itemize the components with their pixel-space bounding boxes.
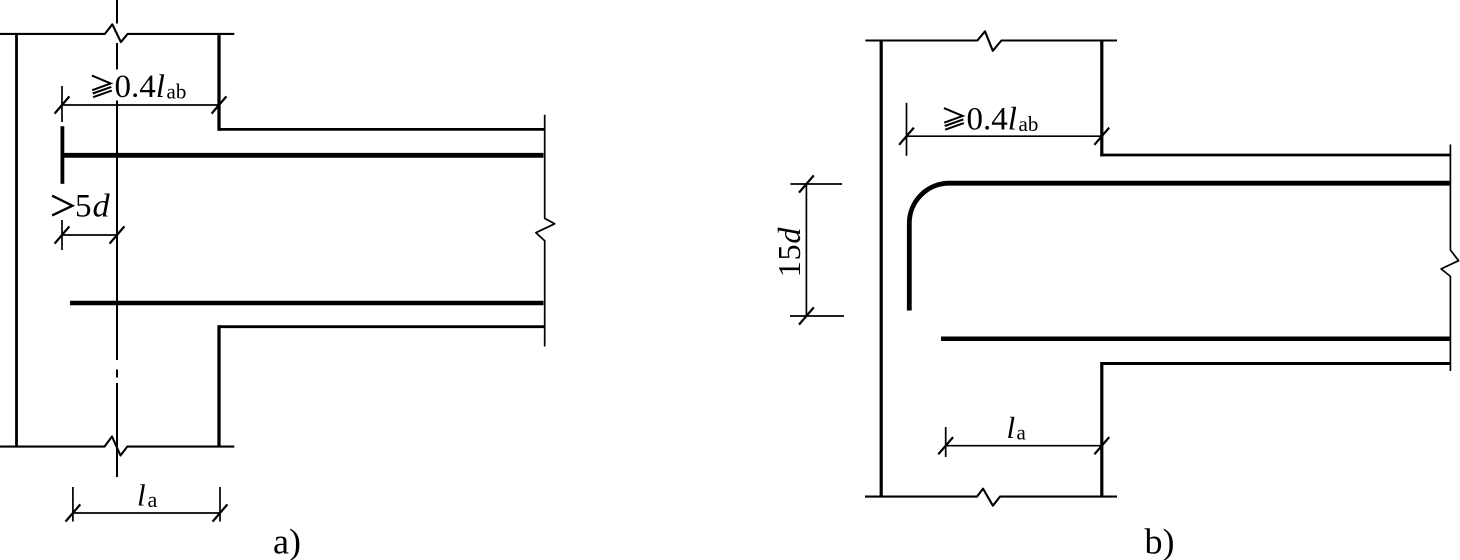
column centerline (axis) bbox=[116, 0, 118, 477]
bottom cut line with break symbol bbox=[0, 437, 234, 456]
column inner edge lower segment bbox=[217, 325, 220, 446]
column inner edge upper segment bbox=[217, 33, 220, 131]
dim >5d : dimension line bbox=[62, 234, 117, 236]
svg-text:a): a) bbox=[273, 522, 301, 560]
svg-text:15d: 15d bbox=[771, 227, 807, 278]
svg-text:l: l bbox=[1007, 410, 1016, 445]
bottom cut line with break symbol bbox=[865, 489, 1117, 506]
dim la : extension line bbox=[945, 427, 947, 457]
beam bottom edge bbox=[218, 325, 545, 328]
beam top edge bbox=[218, 128, 545, 131]
dim la : dimension line bbox=[946, 445, 1102, 447]
column right edge lower segment bbox=[1100, 362, 1103, 497]
svg-text:b): b) bbox=[1145, 522, 1175, 560]
dim >5d : extension line bbox=[61, 220, 63, 250]
dim &ge;0.4lab : tick marks bbox=[55, 96, 227, 113]
bottom rebar bbox=[70, 301, 544, 306]
dim &ge;0.4lab : extension line bbox=[61, 86, 63, 122]
dim la : tick marks bbox=[938, 437, 1109, 454]
dim la : tick marks bbox=[66, 504, 228, 521]
dim la : dimension line bbox=[73, 512, 220, 514]
svg-text:0.4l: 0.4l bbox=[967, 102, 1017, 138]
svg-text:ab: ab bbox=[167, 80, 187, 104]
svg-text:0.4l: 0.4l bbox=[115, 69, 165, 105]
bottom rebar bbox=[941, 336, 1450, 341]
beam cut edge with break symbol bbox=[536, 115, 555, 347]
beam bottom edge bbox=[1100, 362, 1450, 365]
top cut line with break symbol bbox=[865, 31, 1117, 51]
top cut line with break symbol bbox=[0, 24, 234, 42]
dim &ge;0.4lab : ge-slanted symbol bbox=[92, 76, 112, 98]
dim >5d : tick marks bbox=[55, 226, 125, 243]
beam top edge bbox=[1100, 154, 1450, 157]
top rebar bbox=[62, 153, 543, 158]
dim la : extension lines bbox=[73, 487, 220, 522]
svg-text:d: d bbox=[93, 188, 110, 224]
dim &ge;0.4lab : extension line bbox=[906, 103, 908, 156]
wall outer edge line bbox=[15, 33, 18, 446]
dim 15d : dimension line bbox=[805, 184, 807, 316]
svg-text:l: l bbox=[137, 478, 146, 513]
svg-text:5: 5 bbox=[75, 189, 92, 225]
column right edge upper segment bbox=[1100, 41, 1103, 157]
rebar anchor head (end bar) bbox=[61, 126, 65, 184]
dim &ge;0.4lab : dimension line bbox=[907, 135, 1102, 137]
beam cut edge with break symbol bbox=[1441, 145, 1459, 372]
dim &ge;0.4lab : dimension line bbox=[62, 104, 219, 106]
dim &ge;0.4lab : tick marks bbox=[899, 128, 1109, 145]
dim 15d : tick marks bbox=[799, 175, 814, 324]
dim 15d : extension lines bbox=[790, 184, 844, 316]
dim >5d : greater-than symbol bbox=[52, 196, 72, 216]
svg-text:a: a bbox=[148, 487, 158, 512]
svg-text:ab: ab bbox=[1019, 112, 1039, 136]
column left edge bbox=[880, 41, 883, 497]
svg-text:a: a bbox=[1017, 421, 1027, 445]
dim &ge;0.4lab : ge-slanted symbol bbox=[944, 108, 964, 130]
top rebar with 90-degree hook bbox=[909, 183, 1449, 310]
